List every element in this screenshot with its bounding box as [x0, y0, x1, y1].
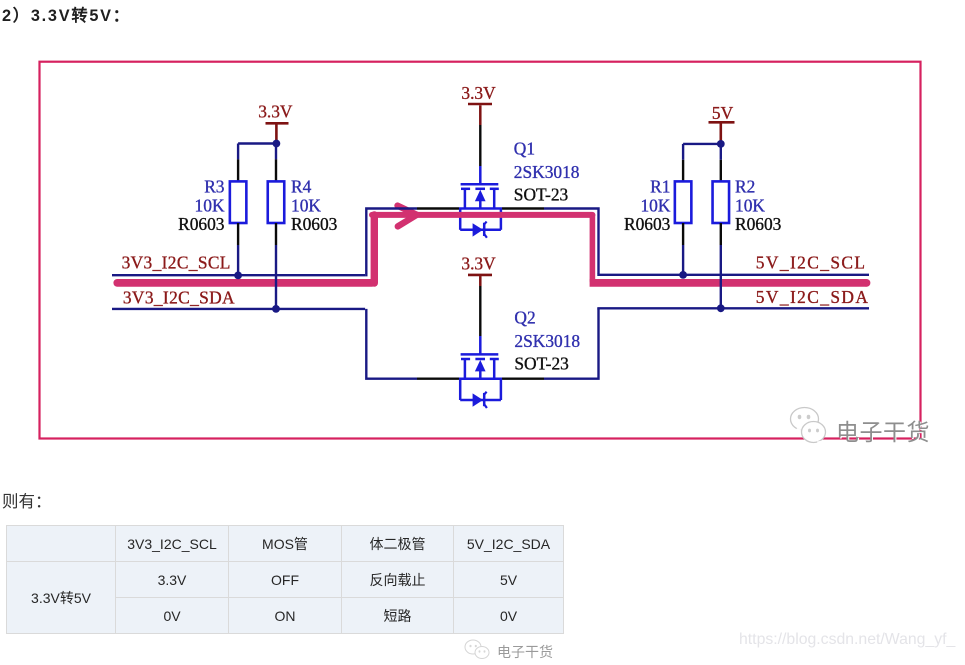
highlighted signal path (pink) right riser — [590, 215, 596, 281]
power 3.3V above Q2 — [468, 275, 492, 336]
node R3-SCL junction — [234, 272, 242, 280]
svg-text:R0603: R0603 — [624, 214, 671, 234]
wire Q1 left pin (black) — [417, 207, 459, 209]
svg-text:R0603: R0603 — [178, 214, 225, 234]
label R2 footprint R0603 — [735, 214, 782, 234]
svg-text:3.3V: 3.3V — [461, 253, 496, 273]
label R3 — [204, 176, 225, 196]
wire R2 to SDA (navy) — [720, 245, 722, 308]
label R2 value 10K — [735, 195, 765, 215]
svg-text:R0603: R0603 — [735, 214, 782, 234]
node R1-SCL junction — [679, 271, 687, 279]
label Q1 — [514, 138, 535, 158]
label R1 — [650, 176, 670, 196]
wire Q2 left pin (black) — [417, 378, 459, 380]
wire R2 top pin (black) — [720, 147, 722, 181]
wire 5V node horizontal — [683, 143, 721, 145]
label Q2 package SOT-23 — [514, 354, 569, 374]
svg-text:3.3V: 3.3V — [461, 83, 496, 103]
label R3 footprint R0603 — [178, 214, 225, 234]
wire SCL riser up to Q1 — [366, 209, 417, 277]
svg-text:R2: R2 — [735, 176, 755, 196]
highlighted signal path (pink) segment SCL left — [117, 279, 372, 287]
svg-text:3V3_I2C_SCL: 3V3_I2C_SCL — [122, 252, 231, 272]
label 3.3V left — [258, 102, 293, 122]
svg-text:5V_I2C_SCL: 5V_I2C_SCL — [756, 252, 867, 272]
wire R3 top pin (black) — [237, 144, 239, 182]
label 3.3V above Q1 — [461, 83, 496, 103]
wire Q2 right pin (black) — [502, 378, 544, 380]
wire R4 bottom pin (black) — [275, 223, 277, 245]
caption 则有 — [2, 488, 52, 512]
bottom watermark — [463, 639, 563, 660]
label R4 value 10K — [291, 195, 321, 215]
label Q2 — [514, 307, 535, 327]
svg-text:R4: R4 — [291, 176, 312, 196]
label 3.3V above Q2 — [461, 253, 496, 273]
svg-text:3V3_I2C_SDA: 3V3_I2C_SDA — [123, 288, 235, 308]
heading — [2, 2, 131, 26]
resistor R1 — [675, 181, 692, 223]
wire 5V_I2C_SCL horizontal — [597, 274, 869, 276]
highlighted signal path (pink) segment SCL right — [590, 279, 871, 287]
Q2 body diode — [473, 393, 483, 406]
svg-text:R1: R1 — [650, 176, 670, 196]
svg-text:SOT-23: SOT-23 — [514, 185, 569, 205]
label R4 — [291, 176, 312, 196]
URL watermark — [739, 631, 955, 649]
svg-text:2SK3018: 2SK3018 — [514, 331, 580, 351]
svg-text:Q2: Q2 — [514, 307, 535, 327]
node R4-SDA junction — [272, 305, 280, 313]
wire SDA drop down to Q2 — [366, 309, 417, 379]
power 3.3V left symbol — [266, 123, 289, 141]
transistor Q1 (2SK3018 N-MOSFET) — [459, 166, 502, 238]
power 3.3V above Q1 — [468, 104, 492, 166]
svg-text:Q1: Q1 — [514, 138, 535, 158]
wire R4 top pin (black) — [275, 147, 277, 181]
label R1 footprint R0603 — [624, 214, 671, 234]
wire Q1 right pin (black) — [502, 207, 544, 209]
highlighted signal path (pink) left riser — [371, 215, 378, 283]
net label 5V_I2C_SCL — [756, 252, 867, 272]
node R2-SDA junction — [717, 304, 725, 312]
power 5V symbol — [709, 122, 735, 141]
wire R2 bottom pin (black) — [720, 223, 722, 245]
wire Q2 right riser to SDA — [544, 308, 599, 378]
signal flow arrow — [398, 206, 417, 227]
schematic border frame — [40, 62, 921, 439]
wire 3.3V node horizontal — [238, 142, 276, 144]
label Q1 part 2SK3018 — [514, 162, 580, 182]
wire R1 top pin (black) — [682, 144, 684, 182]
Q1 bulk arrow — [475, 190, 486, 201]
svg-text:R0603: R0603 — [291, 214, 338, 234]
svg-text:2SK3018: 2SK3018 — [514, 162, 580, 182]
net label 3V3_I2C_SCL — [122, 252, 231, 272]
transistor Q2 (2SK3018 N-MOSFET) — [459, 336, 502, 408]
label R4 footprint R0603 — [291, 214, 338, 234]
highlighted signal path (pink) top segment — [372, 212, 592, 218]
svg-text:5V_I2C_SDA: 5V_I2C_SDA — [756, 287, 870, 307]
Q1 body diode — [473, 223, 483, 236]
resistor R3 — [230, 181, 247, 223]
svg-text:5V: 5V — [712, 103, 734, 123]
resistor R4 — [268, 181, 285, 223]
svg-text:10K: 10K — [291, 195, 321, 215]
net label 5V_I2C_SDA — [756, 287, 870, 307]
wire R3 bottom pin (black) — [237, 223, 239, 245]
svg-text:R3: R3 — [204, 176, 225, 196]
truth table — [6, 525, 564, 634]
svg-text:10K: 10K — [735, 195, 765, 215]
wire R4 to SDA (navy) — [275, 245, 277, 309]
wire R3 to SCL (navy) — [237, 245, 239, 275]
label R2 — [735, 176, 755, 196]
label Q1 package SOT-23 — [514, 185, 569, 205]
node 3.3V left junction — [273, 140, 281, 148]
wire 5V_I2C_SDA horizontal — [597, 307, 869, 309]
wire R1 to SCL (navy) — [682, 245, 684, 275]
wire Q1 right to SCL drop — [544, 209, 599, 275]
svg-text:SOT-23: SOT-23 — [514, 354, 569, 374]
resistor R2 — [713, 181, 730, 223]
svg-text:10K: 10K — [640, 195, 670, 215]
watermark logo in schematic — [788, 404, 938, 450]
label Q2 part 2SK3018 — [514, 331, 580, 351]
Q2 bulk arrow — [475, 360, 486, 371]
svg-text:10K: 10K — [195, 195, 225, 215]
svg-text:3.3V: 3.3V — [258, 102, 293, 122]
node 5V junction — [717, 140, 725, 148]
wire R1 bottom pin (black) — [682, 223, 684, 245]
net label 3V3_I2C_SDA — [123, 288, 235, 308]
label 5V — [712, 103, 734, 123]
wire 3V3_I2C_SCL horizontal — [112, 274, 365, 276]
label R3 value 10K — [195, 195, 225, 215]
wire 3V3_I2C_SDA horizontal — [112, 308, 365, 310]
label R1 value 10K — [640, 195, 670, 215]
